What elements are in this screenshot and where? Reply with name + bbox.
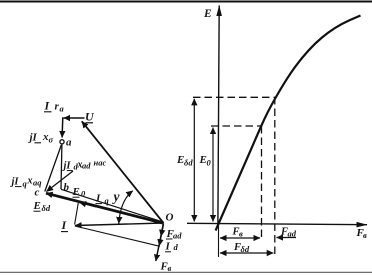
phasor jI*xsigma (down, arrow at a) bbox=[61, 117, 64, 137]
svg-text:jI: jI bbox=[28, 132, 38, 144]
svg-text:I: I bbox=[95, 193, 101, 205]
svg-text:I: I bbox=[165, 241, 171, 253]
axis extension below origin bbox=[218, 224, 220, 258]
phasor I (O to left, arrow at tip) bbox=[75, 223, 164, 226]
phasor Iq (arrow along band) bbox=[80, 203, 97, 207]
svg-text:нас: нас bbox=[94, 158, 107, 168]
node a (small circle) bbox=[60, 140, 64, 144]
phasor E0 : b to O thin bbox=[61, 189, 164, 222]
svg-text:у: у bbox=[112, 189, 121, 204]
segment a-b (jId xad sat) bbox=[60, 144, 63, 189]
svg-text:x: x bbox=[27, 176, 33, 187]
svg-text:ad: ad bbox=[173, 231, 182, 241]
svg-text:jI: jI bbox=[62, 161, 72, 172]
svg-text:σ: σ bbox=[49, 135, 54, 145]
phasor U (O to tip) bbox=[82, 121, 164, 223]
svg-text:E: E bbox=[72, 186, 80, 198]
dashed vertical at F_v bbox=[261, 126, 263, 240]
y axis E bbox=[218, 6, 219, 223]
svg-text:E: E bbox=[33, 200, 41, 212]
svg-text:в: в bbox=[168, 263, 172, 273]
svg-text:δd: δd bbox=[184, 158, 193, 168]
phasor E_deltad : thick band c to O with arrow at c bbox=[46, 193, 164, 223]
construction line Iq tip to I tip bbox=[75, 203, 79, 225]
svg-text:c: c bbox=[35, 187, 40, 199]
segment a-c bbox=[45, 145, 62, 192]
svg-text:в: в bbox=[239, 229, 243, 239]
svg-text:ad: ad bbox=[82, 161, 91, 171]
construction line I tip to Id tip bbox=[75, 226, 160, 246]
top border rule bbox=[0, 1, 372, 3]
phasor I*ra (horizontal, arrow left) bbox=[64, 117, 85, 119]
bottom border rule bbox=[0, 271, 372, 273]
dashed horizontal at E_deltad level bbox=[193, 96, 276, 98]
magnetization curve bbox=[216, 16, 361, 231]
dimension F_ad arrow (from right) bbox=[277, 237, 297, 239]
svg-text:a: a bbox=[66, 137, 72, 149]
phasor jIq xaq (arrow into c) bbox=[47, 171, 74, 192]
svg-text:ad: ad bbox=[288, 229, 297, 239]
svg-text:O: O bbox=[166, 212, 174, 224]
svg-text:E: E bbox=[203, 8, 212, 20]
svg-text:jI: jI bbox=[10, 177, 20, 188]
svg-text:U: U bbox=[85, 110, 95, 124]
dimension line E0 bbox=[212, 128, 214, 222]
phasor F_ad (short down) bbox=[161, 224, 163, 236]
svg-text:δd: δd bbox=[42, 203, 51, 213]
dimension F_v row bbox=[220, 237, 260, 239]
x axis F_v bbox=[187, 223, 367, 224]
dashed horizontal at E0 level bbox=[211, 125, 261, 127]
phasor I_d (mid down) bbox=[159, 224, 163, 246]
svg-text:в: в bbox=[363, 230, 367, 240]
dashed vertical at F_deltad bbox=[274, 97, 276, 256]
phasor F_v (excitation mmf, long down) bbox=[156, 224, 164, 262]
angle psi arc (U to I) bbox=[119, 191, 133, 224]
dimension line E_deltad bbox=[193, 99, 195, 222]
svg-text:δd: δd bbox=[241, 244, 250, 254]
dimension F_deltad row bbox=[220, 252, 273, 254]
